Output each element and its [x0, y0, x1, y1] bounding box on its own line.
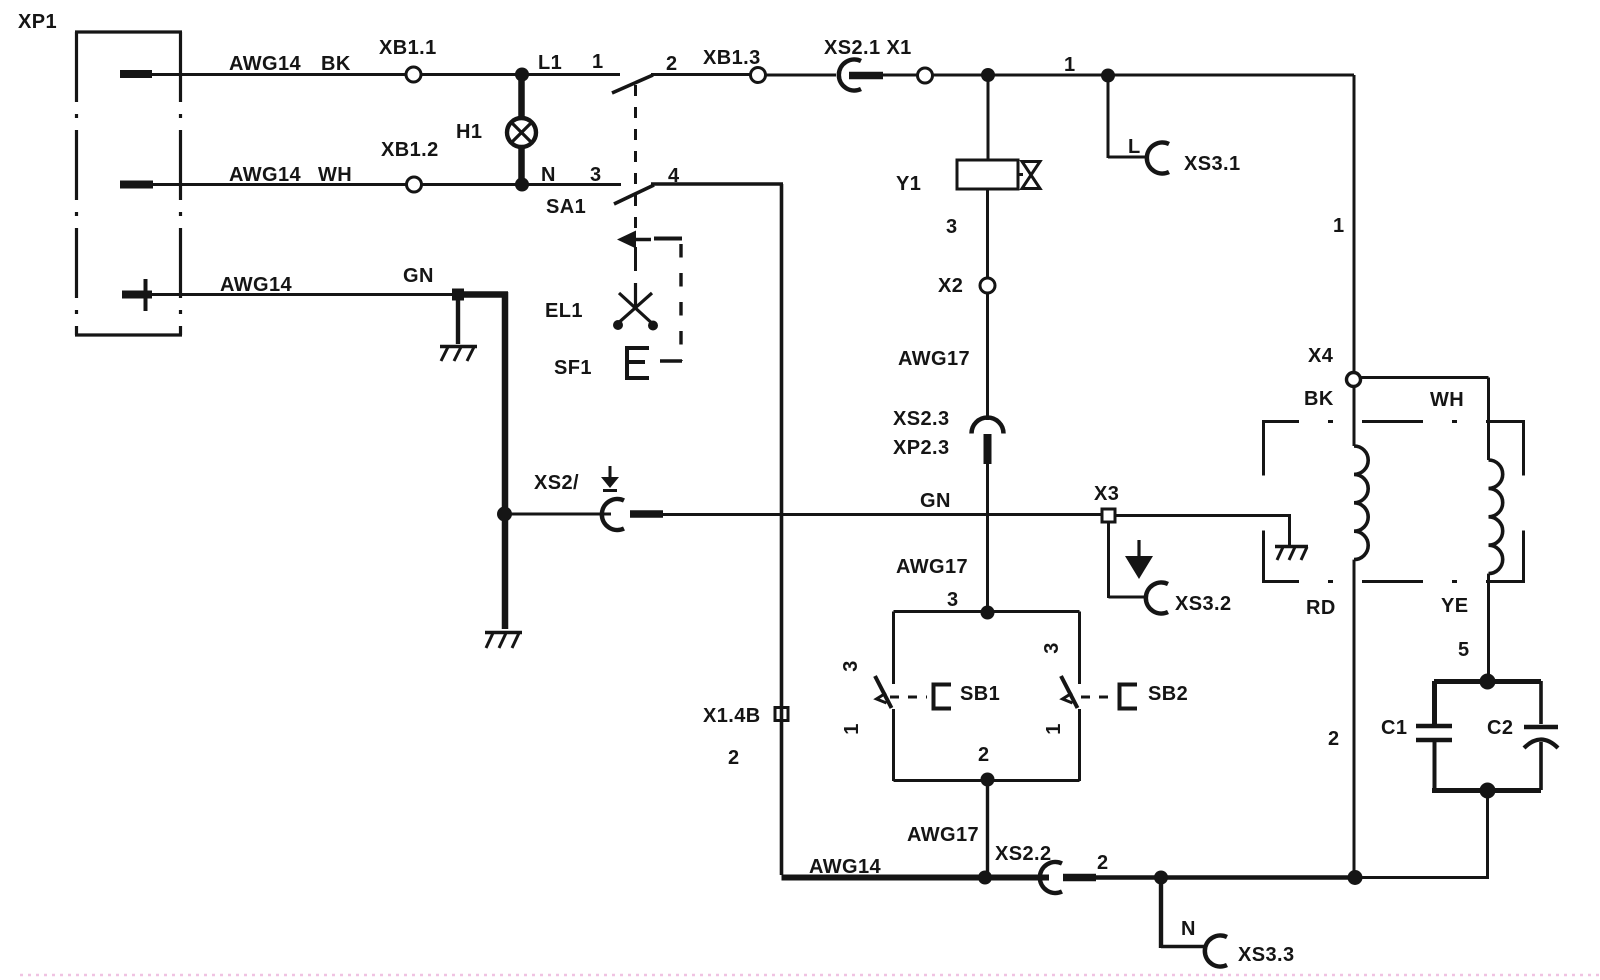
svg-text:RD: RD: [1306, 597, 1336, 619]
svg-text:3: 3: [840, 660, 862, 672]
wire N to SA1 contact 3: [522, 183, 621, 186]
label AWG14 WH: [229, 164, 352, 186]
wire AWG14 WH from XP1.2 to XB1.2: [153, 183, 406, 186]
svg-text:EL1: EL1: [545, 300, 583, 322]
connector XS2.1 socket arc: [839, 60, 861, 91]
svg-text:XB1.1: XB1.1: [379, 37, 437, 59]
svg-text:H1: H1: [456, 121, 482, 143]
svg-text:XS3.3: XS3.3: [1238, 944, 1294, 966]
svg-text:XB1.2: XB1.2: [381, 139, 439, 161]
ground chassis symbol A: [440, 347, 477, 362]
splice X1: [918, 68, 933, 83]
svg-text:BK: BK: [321, 53, 351, 75]
svg-text:WH: WH: [1430, 389, 1464, 411]
svg-text:L1: L1: [538, 52, 562, 74]
switch SB1 blade: [875, 676, 892, 708]
wire Y1 to X2: [986, 189, 989, 278]
svg-text:1: 1: [841, 723, 863, 735]
switch SA1 pole b blade: [614, 185, 654, 204]
svg-text:C2: C2: [1487, 717, 1513, 739]
svg-text:N: N: [541, 164, 556, 186]
svg-text:X3: X3: [1094, 483, 1119, 505]
svg-text:2: 2: [666, 53, 678, 75]
wire vertical from SA1.4 down to AWG14 bus: [780, 184, 784, 875]
wire XB1.1 to node L1: [421, 73, 517, 76]
pin XP1.3 PE terminal: [122, 279, 152, 311]
splice X4: [1347, 373, 1361, 387]
pin XP1.1 terminal: [120, 70, 152, 78]
ground PE symbol: [1125, 540, 1153, 579]
wire GN to X3: [663, 513, 1102, 516]
svg-text:2: 2: [1097, 852, 1109, 874]
wire WH lead into winding: [1487, 378, 1490, 461]
connector XB1.2: [407, 177, 422, 192]
connector XS2.2 socket arc: [1040, 862, 1062, 893]
wire SA1 contact 4 across to right corner: [651, 182, 783, 185]
splice X3: [1102, 509, 1115, 522]
svg-text:2: 2: [1328, 728, 1340, 750]
svg-text:XS2/: XS2/: [534, 472, 579, 494]
svg-text:L: L: [1128, 136, 1141, 158]
connector XP2.3 pin bar: [984, 434, 992, 464]
svg-text:YE: YE: [1441, 595, 1468, 617]
thermal switch SF1: [625, 346, 649, 380]
SB2 push button bracket: [1120, 685, 1138, 709]
svg-text:XS2.3: XS2.3: [893, 408, 949, 430]
svg-text:1: 1: [592, 51, 604, 73]
wire AWG14 bus bottom: [782, 875, 1050, 881]
svg-text:1: 1: [1064, 54, 1076, 76]
svg-text:N: N: [1181, 918, 1196, 940]
splice X1.4B: [775, 708, 788, 721]
svg-text:BK: BK: [1304, 388, 1334, 410]
svg-text:X2: X2: [938, 275, 963, 297]
lamp H1 lower lead: [518, 146, 525, 181]
svg-text:XS2.1 X1: XS2.1 X1: [824, 37, 912, 59]
wire AWG14 GN from XP1.3: [152, 293, 454, 296]
wire bus to RD junction: [1096, 875, 1355, 879]
connector X1 pin bar: [849, 72, 883, 80]
svg-text:AWG17: AWG17: [898, 348, 970, 370]
capacitor bank bottom bar: [1432, 788, 1541, 793]
motor main winding BK-RD: [1354, 446, 1368, 560]
wire YE down to capacitors: [1487, 574, 1490, 681]
wire cap bottom to bus: [1486, 790, 1489, 879]
wire XB1.3 to XS2.1: [766, 74, 836, 77]
svg-text:AWG17: AWG17: [896, 556, 968, 578]
ground chassis symbol motor: [1275, 547, 1308, 561]
switch SA1 mechanical link dashed: [634, 85, 637, 230]
svg-text:AWG17: AWG17: [907, 824, 979, 846]
ground stub from GN junction: [456, 294, 460, 344]
junction GN / XS2: [497, 507, 512, 522]
connector XS3.3 socket arc: [1205, 936, 1227, 967]
svg-text:XB1.3: XB1.3: [703, 47, 761, 69]
motor M1 frame dashed: [1262, 422, 1525, 584]
node N junction: [515, 178, 529, 192]
junction cap top: [1480, 674, 1496, 690]
svg-text:1: 1: [1333, 215, 1345, 237]
switch box SB frame: [894, 612, 1080, 782]
wire L rail corner down to X4: [1353, 75, 1356, 373]
wire XB1.2 to node N: [422, 183, 517, 186]
wire AWG14 BK from XP1.1 to XB1.1: [152, 73, 406, 76]
junction cap bottom: [1480, 783, 1496, 799]
SF1 dashed linkage frame: [654, 239, 682, 362]
wire GN vertical thick: [502, 292, 509, 629]
node 2 junction: [981, 773, 995, 787]
switch SA1 pole a blade: [612, 75, 653, 93]
ground chassis symbol B: [485, 633, 522, 649]
junction bus / SB drop: [978, 871, 992, 885]
svg-text:X4: X4: [1308, 345, 1334, 367]
wire X1 to node Y1 tap: [933, 74, 1354, 77]
svg-text:SB2: SB2: [1148, 683, 1188, 705]
connector XS2.3 socket arc: [972, 418, 1004, 434]
svg-text:AWG14: AWG14: [809, 856, 881, 878]
svg-text:SF1: SF1: [554, 357, 592, 379]
wire RD down to bus: [1353, 560, 1356, 875]
svg-text:5: 5: [1458, 639, 1470, 661]
junction bus / RD: [1348, 870, 1363, 885]
junction bus / XS3.3 tap: [1154, 871, 1168, 885]
junction at XS3.1 tap: [1101, 69, 1115, 83]
svg-text:AWG14: AWG14: [229, 164, 301, 186]
wire AWG17 XP2.3 to SB node 3: [986, 463, 989, 607]
wire junction to XS2 socket: [505, 513, 611, 516]
motor aux winding WH-YE: [1489, 460, 1503, 574]
svg-text:XP2.3: XP2.3: [893, 437, 949, 459]
svg-text:3: 3: [590, 164, 602, 186]
connector XS2 pin bar: [630, 510, 663, 518]
scan artifact pink dotted line: [20, 974, 1600, 976]
svg-text:SA1: SA1: [546, 196, 586, 218]
wire GN thick to corner: [456, 291, 508, 298]
SF1 actuating arrow: [617, 231, 651, 272]
svg-text:XS3.2: XS3.2: [1175, 593, 1231, 615]
connector XS2.2 pin bar: [1063, 874, 1096, 882]
wire Y1 feed from junction: [987, 75, 990, 160]
node L1 junction: [515, 68, 529, 82]
capacitor bank top bar: [1434, 679, 1541, 684]
svg-text:AWG14: AWG14: [229, 53, 301, 75]
wire SA1 contact 2 to XB1.3: [651, 73, 750, 76]
connector XP1 box: [75, 32, 182, 335]
label XS2/PE: [534, 466, 619, 494]
pin XP1.2 terminal: [120, 181, 153, 189]
wire X4 to WH branch: [1360, 376, 1489, 379]
lamp H1 upper lead: [518, 78, 525, 119]
wire bus to capacitor leg: [1355, 876, 1489, 879]
svg-text:X1.4B: X1.4B: [703, 705, 761, 727]
svg-text:3: 3: [947, 589, 959, 611]
capacitor C2 polarized: [1524, 681, 1558, 790]
wire X1 bar to X1 splice: [883, 74, 917, 77]
wire X3 down to XS3.2: [1109, 522, 1149, 598]
connector XB1.3: [751, 68, 766, 83]
valve symbol of Y1: [1018, 162, 1040, 189]
SB1 actuator dashed: [890, 696, 927, 699]
svg-text:WH: WH: [318, 164, 352, 186]
capacitor C1: [1416, 681, 1452, 790]
connector XS3.2 socket arc: [1146, 583, 1168, 614]
junction GN: [452, 289, 464, 301]
wire AWG17 SB to bus: [986, 780, 989, 877]
svg-text:1: 1: [1043, 723, 1065, 735]
svg-text:2: 2: [728, 747, 740, 769]
SB2 actuator dashed: [1081, 696, 1113, 699]
igniter EL1: [613, 283, 658, 331]
label AWG14 BK: [229, 53, 351, 75]
junction at Y1 tap: [981, 68, 995, 82]
connector XB1.1: [406, 67, 421, 82]
svg-text:XS2.2: XS2.2: [995, 843, 1051, 865]
svg-text:SB1: SB1: [960, 683, 1000, 705]
lamp H1: [507, 118, 536, 147]
node 3 junction: [981, 606, 995, 620]
svg-text:2: 2: [978, 744, 990, 766]
wire L1 to SA1 contact 1: [522, 73, 620, 76]
connector XS3.1 socket arc: [1147, 142, 1169, 173]
switch SB2 blade: [1061, 676, 1078, 708]
svg-text:3: 3: [946, 216, 958, 238]
svg-text:C1: C1: [1381, 717, 1407, 739]
solenoid valve Y1 coil: [957, 160, 1018, 189]
svg-text:XS3.1: XS3.1: [1184, 153, 1240, 175]
wire XS3.1 branch: [1108, 80, 1148, 158]
wire AWG17 X2 to XS2.3: [986, 293, 989, 420]
svg-text:Y1: Y1: [896, 173, 921, 195]
wire XS3.3 branch: [1161, 877, 1206, 948]
svg-text:XP1: XP1: [18, 11, 57, 33]
svg-text:3: 3: [1041, 642, 1063, 654]
splice X2: [980, 278, 995, 293]
wire BK lead into winding: [1353, 386, 1356, 446]
wire X3 into motor frame: [1115, 516, 1291, 546]
svg-text:GN: GN: [920, 490, 951, 512]
SB1 push button bracket: [934, 685, 952, 709]
svg-text:AWG14: AWG14: [220, 274, 292, 296]
svg-text:GN: GN: [403, 265, 434, 287]
connector XS2 socket arc: [602, 499, 624, 530]
